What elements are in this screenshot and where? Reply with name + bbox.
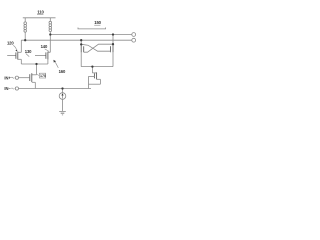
svg-text:IN+: IN+ (4, 76, 11, 81)
svg-text:160: 160 (59, 69, 66, 74)
svg-text:110: 110 (37, 10, 44, 15)
svg-text:120: 120 (7, 41, 14, 46)
svg-text:170: 170 (40, 74, 46, 78)
svg-text:140: 140 (41, 44, 48, 49)
svg-text:IN−: IN− (4, 86, 11, 91)
svg-text:130: 130 (25, 49, 32, 54)
svg-text:150: 150 (94, 20, 101, 25)
